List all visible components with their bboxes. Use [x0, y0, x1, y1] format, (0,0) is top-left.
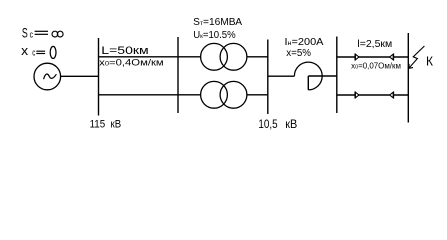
generator G [34, 63, 61, 90]
wire T2 to bus3 [247, 94, 268, 96]
svg-text:с: с [32, 48, 35, 58]
svg-text:с: с [30, 30, 34, 40]
cable line 1 (top) bus4 to bus5 [337, 56, 409, 58]
svg-text:L=50км: L=50км [101, 45, 148, 57]
svg-text:К: К [426, 54, 434, 68]
svg-text:Uк=10.5%: Uк=10.5% [193, 30, 236, 41]
svg-text:x0=0,07Ом/км: x0=0,07Ом/км [351, 61, 401, 70]
svg-text:кВ: кВ [111, 118, 122, 130]
short-circuit bolt at point K [409, 46, 425, 68]
svg-text:Iн=200А: Iн=200А [285, 37, 324, 48]
cable termination right, circuit 2 [390, 92, 394, 99]
reactor LR [294, 62, 322, 90]
svg-text:x=5%: x=5% [286, 48, 311, 59]
bus 2 [177, 37, 179, 113]
svg-text:10,5: 10,5 [258, 117, 277, 131]
transformer T2 [201, 81, 228, 108]
cable termination left, circuit 2 [355, 92, 359, 99]
bus 10,5 kV (bus3) [267, 40, 269, 115]
wire generator to bus1 [61, 75, 99, 77]
infinity symbol [52, 31, 58, 37]
wire line circuit 2 (bottom) bus1 to T2 [99, 94, 201, 96]
bus 5 (fault bus) [407, 33, 409, 123]
svg-text:Sт=16МВА: Sт=16МВА [193, 17, 242, 28]
cable line 2 (bottom) bus4 to bus5 [337, 94, 409, 96]
svg-text:x0=0,4Ом/км: x0=0,4Ом/км [99, 58, 164, 68]
cable termination left, circuit 1 [355, 54, 359, 61]
wire line circuit 1 (top) bus1 to T1 [99, 56, 201, 58]
bus 4 [336, 37, 338, 114]
bus 115 kV (left) [98, 38, 100, 116]
transformer T1 [201, 43, 228, 70]
svg-text:x: x [21, 43, 28, 58]
wire bus3 to reactor [268, 75, 295, 77]
svg-text:115: 115 [90, 118, 106, 130]
svg-text:S: S [22, 26, 28, 41]
svg-text:l=2,5км: l=2,5км [357, 38, 392, 50]
svg-text:кВ: кВ [285, 119, 297, 131]
wire reactor to bus4 [308, 75, 337, 77]
cable termination right, circuit 1 [390, 54, 394, 61]
wire T1 to bus3 [247, 56, 268, 58]
